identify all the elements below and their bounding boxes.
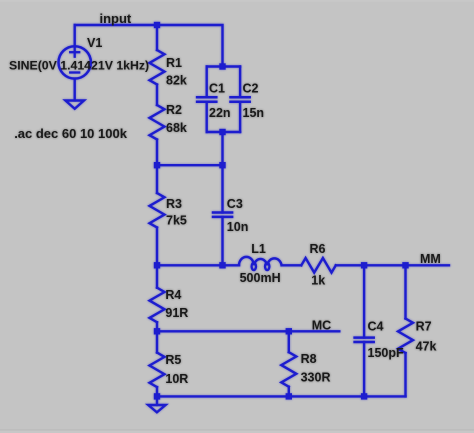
top window edge band [0, 0, 474, 2]
resistor R6 [301, 258, 336, 273]
svg-text:R3: R3 [166, 197, 182, 211]
ground main [148, 405, 165, 412]
svg-text:C1: C1 [209, 81, 225, 95]
wire R5 bottom lead [156, 387, 158, 396]
svg-text:15n: 15n [243, 106, 265, 120]
resistor R7 [398, 319, 413, 354]
svg-text:330R: 330R [301, 370, 331, 384]
wire cap box top bar [207, 65, 240, 67]
node ground row left [154, 393, 160, 399]
svg-text:MM: MM [420, 252, 441, 266]
svg-text:R1: R1 [166, 56, 182, 70]
svg-text:R4: R4 [165, 288, 181, 302]
svg-text:C4: C4 [368, 320, 384, 334]
wire cap box bottom bar [207, 131, 240, 133]
node R8 top MC [286, 328, 292, 334]
node C4 top [361, 262, 367, 268]
capacitor C1 [205, 67, 207, 98]
svg-text:C2: C2 [243, 81, 259, 95]
wire R3 bottom lead [156, 228, 158, 266]
wire R8 top lead [288, 331, 290, 352]
svg-text:68k: 68k [166, 121, 187, 135]
wire R7 bottom lead [404, 353, 406, 396]
wire caps to node [221, 132, 223, 165]
resistor R1 [150, 50, 165, 85]
wire R4 top lead [156, 265, 158, 287]
node cap box bottom [219, 129, 225, 135]
svg-text:R7: R7 [416, 320, 432, 334]
svg-text:7k5: 7k5 [166, 214, 187, 228]
svg-text:L1: L1 [251, 242, 266, 256]
svg-text:150pF: 150pF [368, 346, 404, 360]
svg-text:R2: R2 [166, 103, 182, 117]
svg-text:V1: V1 [87, 36, 102, 50]
capacitor C2 [239, 67, 241, 98]
svg-text:82k: 82k [166, 74, 187, 88]
resistor R3 [150, 193, 165, 228]
ground V1 [65, 101, 84, 109]
wire horizontal node row [157, 164, 223, 166]
svg-text:91R: 91R [165, 306, 188, 320]
svg-text:22n: 22n [209, 106, 231, 120]
svg-text:MC: MC [312, 318, 331, 332]
wire bottom row [157, 395, 406, 397]
wire MC row [157, 330, 339, 332]
svg-text:1k: 1k [311, 273, 325, 287]
capacitor C4 [363, 265, 365, 337]
node R2-R3 [154, 162, 160, 168]
wire MM row right [336, 264, 449, 266]
svg-text:.ac dec 60 10 100k: .ac dec 60 10 100k [14, 126, 128, 141]
node C3-L1 [219, 262, 225, 268]
wire V1 bottom lead [73, 79, 75, 101]
wire V1 top lead [73, 25, 75, 46]
wire input top [75, 25, 223, 67]
resistor R4 [150, 288, 165, 323]
svg-text:47k: 47k [416, 339, 437, 353]
svg-text:R5: R5 [165, 353, 181, 367]
svg-text:10R: 10R [165, 372, 188, 386]
wire R1 top lead [156, 25, 158, 50]
svg-text:C3: C3 [227, 197, 243, 211]
voltage source V1 [58, 46, 90, 78]
node C3 top row [219, 162, 225, 168]
wire R4 bottom lead [156, 322, 158, 331]
wire R7 top lead [404, 265, 406, 318]
node A input-R1 [154, 22, 160, 28]
svg-text:input: input [100, 11, 132, 26]
ground main stub [156, 396, 158, 405]
node cap box top [219, 63, 225, 69]
wire MM row left [157, 264, 239, 266]
svg-text:SINE(0V 1.41421V 1kHz): SINE(0V 1.41421V 1kHz) [9, 58, 149, 72]
svg-text:R8: R8 [301, 352, 317, 366]
wire L1-R6 [282, 264, 302, 266]
wire R8 bottom lead [288, 387, 290, 397]
wire R3 top lead [156, 165, 158, 193]
node R4-R5 MC [154, 328, 160, 334]
node R7 top [402, 262, 408, 268]
inductor L1 [239, 257, 282, 265]
wire R5 top lead [156, 331, 158, 352]
node R3-R4-L1 [154, 262, 160, 268]
svg-text:500mH: 500mH [240, 271, 281, 285]
node C4 bottom [361, 393, 367, 399]
wire R1-R2 [156, 85, 158, 106]
wire R2 bottom lead [156, 140, 158, 166]
resistor R2 [150, 105, 165, 140]
capacitor C3 [221, 165, 223, 212]
resistor R8 [281, 352, 296, 387]
node R8 bottom [286, 393, 292, 399]
svg-text:R6: R6 [310, 242, 326, 256]
resistor R5 [150, 353, 165, 388]
bottom window edge band [0, 429, 474, 431]
svg-text:10n: 10n [227, 220, 249, 234]
